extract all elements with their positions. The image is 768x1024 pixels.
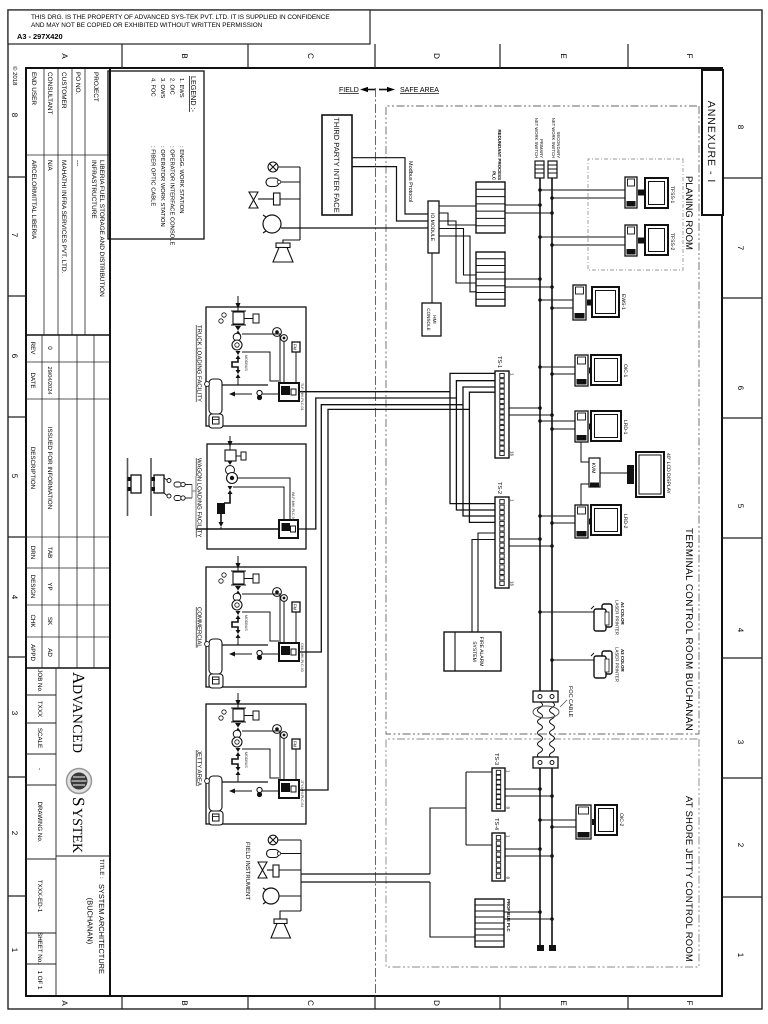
FOC connector block right — [533, 757, 558, 768]
wire pump to IO module (field line) — [281, 227, 428, 229]
wire facility trunk 1 — [450, 373, 495, 503]
wire field instruments header 1 — [299, 167, 301, 240]
wire mooring cluster to facility2 — [192, 476, 196, 529]
mooring link chain b — [164, 493, 192, 501]
wire drop LRD-2 A — [538, 514, 575, 518]
mooring bracket 1 — [152, 475, 165, 493]
wire third party to IO module B — [352, 167, 428, 221]
wire jetty to profibus rack — [430, 882, 475, 937]
svg-text:FIELD: FIELD — [339, 87, 359, 94]
workstation EWS-1 — [573, 285, 626, 320]
svg-text:THIS DRG. IS THE PROPERTY OF A: THIS DRG. IS THE PROPERTY OF ADVANCED SY… — [31, 14, 330, 21]
FOC cable loop — [533, 706, 559, 718]
fire alarm system box — [444, 632, 501, 671]
field instrument control valve 2 — [258, 862, 301, 878]
workstation OIC-2 — [576, 805, 624, 839]
job/scale/drawing/sheet text — [36, 669, 43, 990]
revision table text — [29, 342, 53, 662]
third party interface box — [322, 115, 352, 215]
wire IO module to rack2 c — [439, 236, 476, 292]
printer A4 — [591, 600, 625, 635]
wire drop TFSS-1 B — [550, 196, 625, 200]
wire header2 to horn2 — [280, 911, 301, 919]
wire drop TS-3 B — [505, 794, 554, 798]
wire riser facility4 — [299, 409, 469, 790]
wire drop TS-4 A — [505, 847, 542, 851]
wire drop LRD-2 B — [550, 521, 575, 525]
HMI console — [422, 303, 441, 336]
PLC rack profibus PLC — [475, 899, 504, 947]
wire riser facility3 — [299, 405, 463, 652]
svg-text:SAFE AREA: SAFE AREA — [400, 87, 439, 94]
grid band ticks bottom — [8, 177, 26, 896]
grid band ticks top — [722, 178, 762, 897]
wire IO module to rack1 a — [439, 205, 476, 207]
wire IO module to HMI console — [431, 253, 433, 303]
terminal strip TS-1 — [495, 356, 515, 458]
svg-text:A3 - 297X420: A3 - 297X420 — [17, 32, 63, 41]
wire field group2 to jetty riser 1 — [301, 873, 430, 875]
wire network bus secondary — [551, 178, 553, 948]
field / safe area labels — [339, 87, 439, 94]
wire drop EWS-1 B — [550, 306, 573, 310]
PLC rack redundant process PLC B — [476, 252, 505, 306]
field instrument horn/speaker — [273, 243, 293, 262]
facility4 internals — [205, 693, 304, 825]
wire IO module to rack2 b — [439, 229, 476, 276]
wire drop rack1 B — [505, 211, 554, 215]
network switch secondary — [548, 118, 561, 178]
wire KVM to LRD-2 — [581, 484, 589, 505]
wire KVM to LCD — [600, 472, 627, 474]
FOC cable wavy section bus secondary — [550, 702, 555, 758]
wire riser facility1 — [299, 391, 450, 393]
field instrument transmitter capsule — [266, 178, 300, 187]
annexure label box — [702, 70, 723, 215]
facility box wagon loading facility — [196, 444, 307, 549]
wire drop rack2 B — [505, 285, 554, 289]
wire drop OIC-1 B — [550, 372, 575, 376]
wire drop printer A3 — [550, 658, 594, 662]
KVM switch — [589, 458, 600, 487]
facility3 internals — [205, 556, 304, 688]
mooring bracket 2 — [128, 475, 142, 493]
title block outline — [26, 68, 110, 996]
grid numbers bottom — [10, 113, 19, 953]
wire field group2 to jetty riser 2 — [301, 881, 430, 883]
wire drop TS-2 A — [509, 537, 542, 541]
terminal strip TS-2 — [495, 482, 515, 588]
wire drop EWS-1 A — [538, 298, 573, 302]
wire drop profibus A — [504, 910, 542, 914]
facility1 internals: pipe train, meters, valves, truck, PLC — [205, 296, 304, 428]
wire facility trunk 3 — [463, 387, 495, 516]
FOC cable wavy section bus primary — [538, 702, 543, 758]
title block left table text — [30, 72, 105, 297]
wire drop TS-1 B — [509, 413, 554, 417]
workstation TFSS-2 — [625, 225, 675, 256]
wire facility trunk 4 — [469, 392, 495, 522]
grid band ticks left — [122, 44, 628, 68]
field instrument transmitter capsule 2 — [267, 850, 302, 858]
wire jetty trunk to TS-3/TS-4 — [430, 772, 492, 874]
field instrument pump circle 2 — [263, 888, 301, 904]
facility box jetty area — [196, 704, 307, 824]
bus end caps — [549, 945, 556, 951]
wire drop LRD-1 A — [538, 419, 575, 423]
confidentiality notice box — [8, 10, 370, 44]
wire drop profibus B — [504, 917, 554, 921]
wire facility trunk 2 — [456, 381, 495, 510]
grid letters left — [60, 53, 694, 59]
wire LRD-1 to KVM — [581, 442, 589, 462]
grid numbers top — [736, 125, 745, 958]
FOC connector block left — [533, 691, 558, 702]
workstation LRD-1 — [575, 411, 628, 442]
facility box commercial — [196, 567, 307, 687]
terminal strip TS-4 — [492, 818, 511, 881]
wire third party to IO module A — [352, 158, 428, 214]
wire fire alarm to TS-2 a — [478, 533, 495, 632]
wire riser facility2 — [298, 398, 456, 529]
workstation TFSS-1 — [625, 177, 675, 208]
IO module — [428, 201, 439, 253]
field instrument horn/speaker 2 — [271, 919, 291, 938]
title block right cells — [26, 668, 110, 996]
mooring link chain a — [164, 478, 192, 487]
workstation OIC-1 — [575, 355, 628, 386]
grid letters right — [60, 1000, 694, 1006]
workstation LRD-2 — [575, 505, 628, 538]
facility box truck loading facility — [196, 307, 307, 426]
wire drop OIC-1 A — [538, 365, 575, 369]
wire header to horn — [283, 240, 300, 243]
wire drop LRD-1 B — [550, 427, 575, 431]
facility2 internals: pipe train, meters, PLC — [196, 436, 298, 538]
room at shore jetty control room — [386, 739, 699, 967]
wire drop printer A4 — [538, 610, 594, 614]
wire fire alarm to TS-2 b — [472, 540, 495, 633]
field instrument control valve — [249, 192, 300, 208]
revision table — [26, 335, 110, 668]
wire drop OIC-2 B — [550, 825, 576, 829]
terminal strip TS-3 — [492, 753, 511, 811]
40 inch LCD display — [627, 452, 671, 497]
printer A3 — [591, 647, 625, 682]
FOC cables label — [560, 686, 573, 718]
wire network bus primary — [539, 178, 541, 948]
wire drop TS-4 B — [505, 854, 554, 858]
wire drop TFSS-2 A — [538, 235, 625, 239]
title block left table — [26, 68, 110, 335]
room terminal control room buchanan — [386, 106, 699, 734]
field instrument lamp symbol 2 — [268, 835, 301, 845]
title text — [86, 859, 107, 974]
mooring hooks cluster walls — [128, 458, 152, 516]
wire drop TFSS-2 B — [550, 243, 625, 247]
PLC rack redundant process PLC A — [476, 182, 505, 233]
wire drop TS-1 A — [509, 406, 542, 410]
legend box — [108, 71, 204, 245]
field instrument lamp symbol (circle-X) — [268, 162, 300, 172]
field-safe area divider line — [375, 88, 377, 996]
wire drop rack2 A — [505, 277, 542, 281]
network switch primary — [534, 118, 544, 178]
logo advanced systek — [67, 672, 92, 853]
svg-text:AND MAY NOT BE COPIED OR EXHI: AND MAY NOT BE COPIED OR EXHIBITED WITHO… — [31, 22, 263, 29]
wire field instruments header 2 — [300, 840, 302, 911]
wire drop TS-2 B — [509, 544, 554, 548]
grid band ticks right — [122, 996, 628, 1009]
wire drop OIC-2 A — [538, 818, 576, 822]
wire drop TFSS-1 A — [538, 188, 625, 192]
room planing room — [588, 159, 694, 270]
wire IO module to rack2 a — [439, 221, 476, 283]
wire IO module to rack1 b — [439, 213, 476, 225]
wire drop rack1 A — [505, 203, 542, 207]
field instrument pump/meter circle — [263, 215, 281, 233]
wire drop TS-3 A — [505, 787, 542, 791]
